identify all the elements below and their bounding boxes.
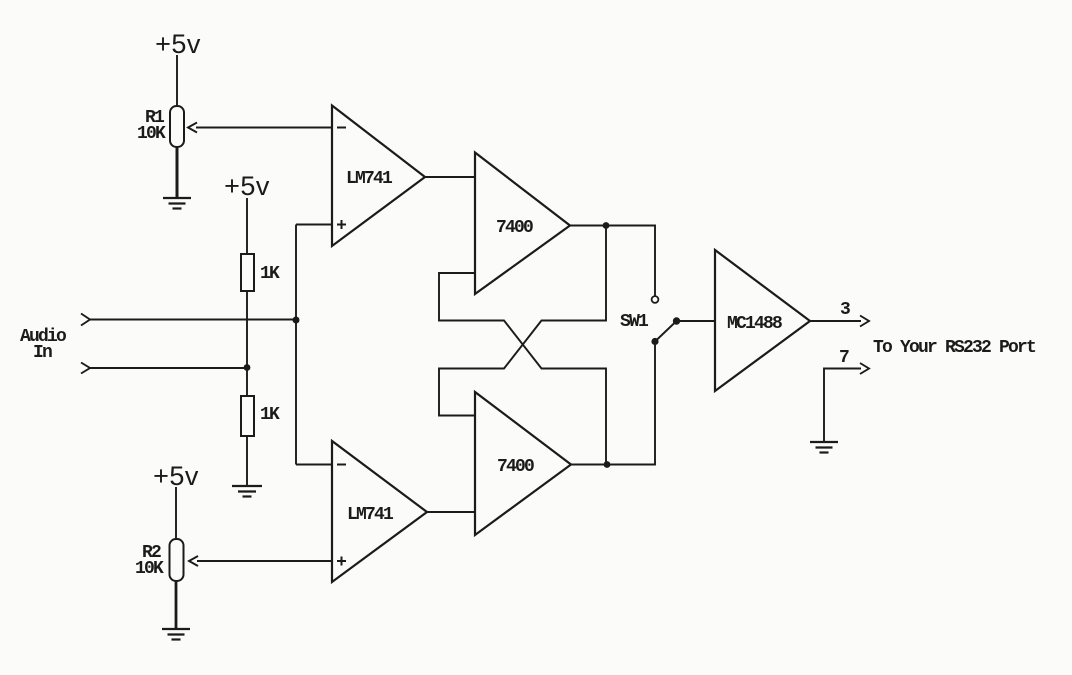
svg-text:LM741: LM741 — [347, 505, 394, 525]
node junction (U3 output) — [603, 222, 610, 229]
wire audio line 2 — [90, 367, 247, 369]
svg-text:10K: 10K — [137, 124, 166, 144]
wire U3 output to SW1 upper throw — [570, 226, 655, 297]
node junction (U4 output) — [604, 461, 611, 468]
svg-text:10K: 10K — [135, 559, 164, 579]
ground (R1) — [163, 198, 191, 209]
svg-text:3: 3 — [840, 300, 850, 320]
switch SW1 lower throw contact — [651, 338, 658, 345]
wire +5v to R1 top — [176, 55, 178, 106]
input arrow (audio line 2) — [81, 363, 90, 374]
output arrow (pin 7) — [860, 363, 869, 374]
wire R1 bottom to ground — [176, 147, 179, 198]
wire bus to U2 minus input — [296, 464, 332, 466]
output arrow (pin 3) — [860, 316, 869, 327]
wire 1K lower to ground — [246, 436, 248, 486]
op-amp U2 LM741 (bottom) — [332, 441, 427, 582]
svg-text:+5v: +5v — [153, 461, 199, 491]
node junction (audio line 1 / opamp bus) — [293, 317, 300, 324]
svg-text:In: In — [33, 343, 52, 363]
svg-text:1K: 1K — [260, 264, 280, 284]
resistor 1K (upper) — [241, 254, 254, 291]
wire R2 wiper to U2 plus input — [197, 560, 332, 562]
resistor 1K (lower) — [241, 396, 254, 436]
wiper arrow of R2 to U2 plus input — [189, 556, 198, 566]
wire +5v to 1K upper resistor — [246, 198, 248, 254]
wire R2 bottom to ground — [175, 581, 178, 629]
switch SW1 upper throw contact (open circle) — [652, 296, 659, 303]
svg-text:To Your RS232 Port: To Your RS232 Port — [873, 338, 1036, 358]
driver U5 MC1488 — [715, 250, 810, 391]
svg-text:7400: 7400 — [496, 218, 533, 238]
wire U5 output (pin 3) — [810, 320, 861, 322]
U2 minus sign — [337, 464, 346, 466]
ground (R2) — [162, 629, 190, 640]
node junction (audio line 2 / divider) — [244, 364, 251, 371]
wiper arrow of R1 to U1 inverting input — [188, 123, 197, 133]
ground (RS232 pin 7) — [810, 442, 838, 453]
U1 minus sign — [337, 127, 346, 129]
wire U4 output to SW1 lower throw — [571, 345, 655, 465]
input arrow (audio line 1) — [81, 314, 90, 326]
svg-text:+5v: +5v — [155, 29, 201, 59]
switch SW1 arm — [655, 321, 677, 342]
op-amp U1 LM741 (top) — [332, 106, 425, 247]
svg-text:7: 7 — [839, 348, 849, 368]
wire bus to U1 plus input — [296, 224, 332, 226]
gate U3 7400 (top) — [475, 153, 570, 295]
wire ground return (pin 7) — [824, 369, 861, 443]
wire +5v to R2 top — [175, 487, 177, 539]
U1 plus sign — [337, 220, 346, 229]
gate U4 7400 (bottom) — [475, 392, 571, 535]
wire U2 output to gate U4 — [427, 511, 475, 513]
svg-text:SW1: SW1 — [620, 312, 649, 332]
wire 1K upper to lower junction — [246, 291, 248, 396]
switch SW1 pole contact — [673, 317, 680, 324]
wire R1 wiper to U1 minus input — [196, 127, 332, 129]
svg-text:LM741: LM741 — [346, 169, 393, 189]
wire feedback net B (U4 out to U3 input, crossover) — [439, 273, 606, 465]
svg-text:7400: 7400 — [497, 457, 534, 477]
resistor R1 (potentiometer body) — [170, 106, 184, 147]
resistor R2 (potentiometer body) — [170, 539, 184, 581]
wire SW1 pole to U5 input — [677, 320, 716, 322]
ground (1K divider) — [232, 486, 262, 497]
wire audio line 1 — [90, 319, 296, 321]
svg-text:1K: 1K — [260, 405, 280, 425]
wire U1 output to gate U3 — [425, 176, 475, 178]
wire feedback net A (U3 out to U4 input, crossover) — [439, 226, 606, 416]
svg-text:MC1488: MC1488 — [727, 314, 782, 334]
wire opamp input bus vertical — [295, 225, 297, 465]
U2 plus sign — [337, 557, 346, 566]
svg-text:+5v: +5v — [224, 171, 270, 201]
